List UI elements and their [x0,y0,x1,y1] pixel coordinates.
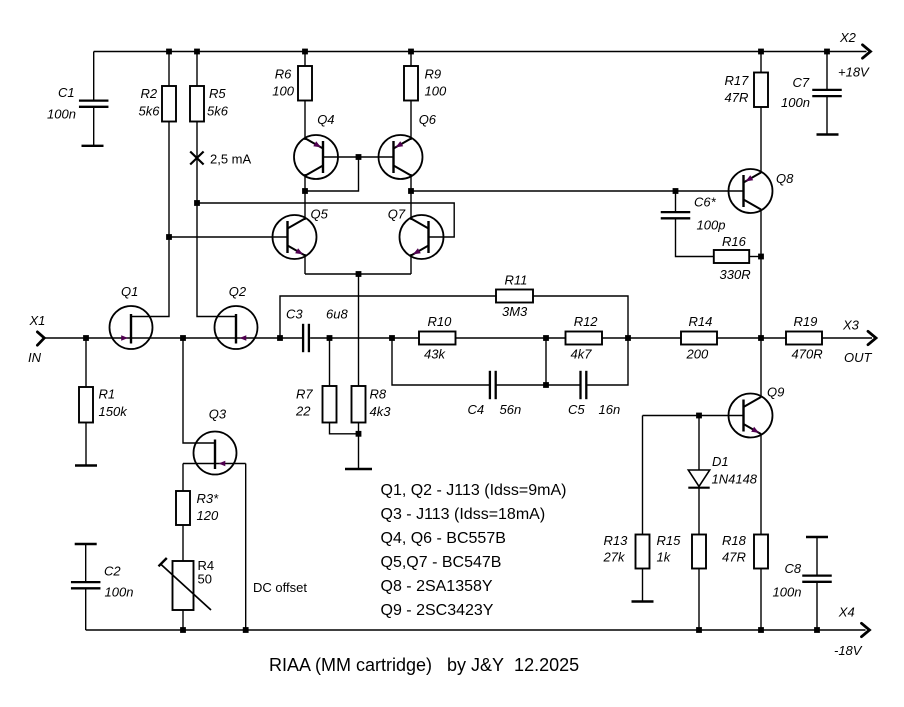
wire R19 to X3 [822,337,872,339]
wire C4 to C5 [497,384,580,386]
wire R5 bottom to Q2 drain [197,122,236,317]
svg-text:100n: 100n [47,107,76,122]
wire C6 bottom to R16 [676,218,714,256]
node rail R15 [696,627,702,633]
svg-text:Q3 - J113 (Idss=18mA): Q3 - J113 (Idss=18mA) [381,506,546,523]
svg-text:1N4148: 1N4148 [712,472,758,487]
svg-text:R14: R14 [689,314,713,329]
wire Q5 emitter down [304,254,306,274]
wire D1 cathode to R15 [698,488,700,535]
svg-text:R15: R15 [657,533,682,548]
terminator C2 top [75,543,97,545]
node mirror right [408,188,414,194]
svg-text:R16: R16 [722,234,747,249]
wire C4 branch left [392,338,489,385]
svg-text:27k: 27k [603,550,626,565]
svg-text:R8: R8 [370,386,387,401]
wire C4C5 riser [545,338,547,385]
wire C7 bottom lead [826,96,828,135]
wire C5 right riser [587,338,628,385]
wire R10 to R12 [456,337,566,339]
wire R7 bottom link [330,423,359,434]
svg-text:R11: R11 [505,273,528,288]
svg-text:16n: 16n [599,402,621,417]
wire R6 to Q4 emitter [304,101,306,141]
svg-text:Q4: Q4 [317,112,334,127]
wire C8 bottom lead [816,581,818,630]
node C6 tap [673,188,679,194]
svg-text:4k7: 4k7 [571,347,593,362]
wire C1 top lead [93,52,95,101]
wire Q3 source to R3 [182,464,184,492]
node rail R6 [302,49,308,55]
wire +18V top rail [94,51,867,53]
node R16 out [758,254,764,260]
node Q5 base tap [166,234,172,240]
diode D1 1N4148 [688,470,709,488]
svg-text:DC offset: DC offset [253,580,307,595]
node input R1 [83,335,89,341]
wire R2 bottom to Q1 drain [131,122,169,317]
svg-text:+18V: +18V [838,65,870,80]
resistor R6 100 [298,66,312,101]
resistor R10 43k [419,332,456,345]
svg-text:Q1: Q1 [121,284,138,299]
svg-text:50: 50 [198,571,212,586]
svg-text:56n: 56n [500,402,522,417]
svg-text:Q1, Q2 - J113 (Idss=9mA): Q1, Q2 - J113 (Idss=9mA) [381,482,567,499]
wire Q5 base from R2 line [169,236,288,238]
wire mirror bases tie [323,156,394,158]
svg-text:RIAA (MM cartridge) by J&Y: RIAA (MM cartridge) by J&Y 12.2025 [269,655,579,675]
svg-text:2,5 mA: 2,5 mA [210,152,252,167]
terminator R1 bottom [75,464,97,466]
wire R12 to R14 [602,337,681,339]
wire R13 bottom lead [642,569,644,602]
capacitor C3 6u8 [303,324,309,352]
svg-text:4k3: 4k3 [370,404,392,419]
wire Q9 collector to output node [760,338,762,397]
node rail R2 [166,49,172,55]
wire C1 bottom lead [93,107,95,146]
node rail R17 [758,49,764,55]
svg-text:R18: R18 [722,533,747,548]
capacitor C1 100n [79,101,109,107]
svg-text:100n: 100n [781,95,810,110]
svg-text:R9: R9 [425,67,442,82]
terminator C1 bottom [82,145,104,147]
resistor R17 47R [754,73,768,108]
svg-text:200: 200 [686,347,709,362]
svg-text:C1: C1 [58,85,75,100]
svg-text:47R: 47R [722,550,746,565]
svg-text:R17: R17 [725,73,750,88]
svg-text:330R: 330R [720,267,751,282]
svg-text:3M3: 3M3 [502,304,528,319]
svg-text:R13: R13 [604,533,629,548]
wire C6 top lead [675,191,677,213]
svg-text:X4: X4 [838,605,855,620]
svg-text:C8: C8 [785,561,802,576]
terminator C8 top [806,536,828,538]
transistor Q2 [215,306,258,349]
wire Q7 base from R5 line [197,203,454,237]
ground R7 R8 [345,468,372,470]
node output [758,335,764,341]
node rail C8 [814,627,820,633]
wire R4 bottom lead [182,610,184,630]
node R7 tap [327,335,333,341]
wire input main line [44,337,302,339]
wire Q9 emitter to R18 [760,434,762,535]
wire mirror bases drop [305,157,359,191]
wire R8 bottom to ground [358,423,360,470]
resistor R16 330R [714,250,749,263]
wire -18V bottom rail [86,629,866,631]
node rail R18 [758,627,764,633]
wire R15 bottom lead [698,569,700,631]
node diff sources [180,335,186,341]
terminator C7 bottom [817,133,839,135]
svg-text:100p: 100p [697,217,726,232]
resistor R15 1k [692,535,706,569]
wire Q9 base line [643,415,744,417]
wire Q3 source-gate line [183,463,246,465]
resistor R5 5k6 [190,86,204,122]
wire R11 bypass left [280,296,496,338]
svg-text:Q5: Q5 [311,206,329,221]
wire R5 top lead [196,52,198,87]
svg-text:100: 100 [272,84,294,99]
wire R9 top lead [410,52,412,67]
resistor R14 200 [681,332,717,345]
connector X4 arrow [862,623,870,636]
node emitters tail [356,271,362,277]
svg-text:150k: 150k [99,404,129,419]
svg-text:Q6: Q6 [419,112,437,127]
resistor R7 22 [323,386,337,423]
capacitor C2 100n [71,582,101,588]
wire mirror output to Q8 base [411,190,744,192]
transistor Q3 [194,432,237,475]
wire R6 top lead [304,52,306,67]
svg-text:Q2: Q2 [229,284,247,299]
svg-text:1k: 1k [657,550,672,565]
wire Q7 emitter down [410,254,412,274]
capacitor C8 100n [802,576,832,582]
svg-text:Q3: Q3 [209,407,227,422]
node R7 R8 gnd [356,431,362,437]
terminator R13 bottom [632,600,654,602]
svg-text:R10: R10 [428,314,453,329]
resistor R2 5k6 [162,86,176,122]
wire R2 top lead [168,52,170,87]
svg-text:22: 22 [295,404,311,419]
svg-text:R7: R7 [296,386,313,401]
transistor Q4 [294,135,338,179]
wire emitters join [305,273,411,275]
svg-text:X1: X1 [29,313,46,328]
svg-text:R6: R6 [275,67,292,82]
svg-text:R2: R2 [141,86,158,101]
svg-text:Q5,Q7 - BC547B: Q5,Q7 - BC547B [381,554,502,571]
svg-text:-18V: -18V [834,643,863,658]
svg-text:C3: C3 [286,306,303,321]
svg-text:OUT: OUT [844,350,873,365]
wire Q6 collector down [410,174,412,191]
svg-text:120: 120 [197,508,219,523]
capacitor C6* 100p [661,212,691,218]
svg-text:R12: R12 [574,314,599,329]
svg-text:R19: R19 [794,314,818,329]
transistor Q6 [379,135,423,179]
svg-text:C6*: C6* [694,195,717,210]
svg-text:Q8: Q8 [776,171,794,186]
capacitor C7 100n [812,90,842,96]
node D1 anode [696,413,702,419]
wire R3 to R4 [182,525,184,561]
wire tail to R8 [358,274,360,386]
svg-text:470R: 470R [792,347,823,362]
svg-text:6u8: 6u8 [326,306,348,321]
transistor Q8 [729,169,773,213]
node rail R5 [194,49,200,55]
svg-text:R5: R5 [209,86,226,101]
svg-text:100n: 100n [105,584,134,599]
svg-text:5k6: 5k6 [139,103,161,118]
wire Q8 collector to output node [760,210,762,339]
svg-text:C7: C7 [793,75,810,90]
node rail R9 [408,49,414,55]
svg-text:X3: X3 [842,318,860,333]
svg-text:47R: 47R [725,90,749,105]
resistor R8 4k3 [352,386,366,423]
svg-text:C4: C4 [468,402,485,417]
node rail C7 [824,49,830,55]
trimmer R4 50 [159,558,212,610]
wire R1 top lead [85,338,87,387]
wire R17 to Q8 emitter [760,107,762,173]
node R10 R12 [543,335,549,341]
capacitor C4 56n [490,371,496,399]
svg-text:R1: R1 [99,387,116,402]
transistor Q1 [110,306,153,349]
transistor Q5 [273,215,317,259]
svg-text:Q9: Q9 [767,385,784,400]
svg-text:Q9 - 2SC3423Y: Q9 - 2SC3423Y [381,602,494,619]
transistor Q9 [729,394,773,438]
node mirror bases [356,154,362,160]
svg-text:Q7: Q7 [388,206,406,221]
wire Q3 drain from diff pair [183,338,215,443]
resistor R19 470R [786,332,822,345]
node rail R4 [180,627,186,633]
transistor Q7 [400,215,444,259]
resistor R12 4k7 [566,332,603,345]
svg-text:D1: D1 [712,454,729,469]
svg-text:5k6: 5k6 [207,103,229,118]
wire C8 top lead [816,537,818,576]
resistor R11 3M3 [496,290,533,303]
resistor R1 150k [79,387,93,423]
svg-text:100n: 100n [773,585,802,600]
wire C3 to R10 [310,337,419,339]
current marker 2,5 mA [190,152,203,165]
node C3 left [277,335,283,341]
resistor R13 27k [636,535,650,569]
wire R1 bottom lead [85,423,87,466]
wire R16 to Q8 collector line [749,256,761,258]
wire D1 anode lead [698,416,700,471]
wire DC offset line [245,464,247,631]
connector X3 arrow [868,331,876,344]
wire C7 top lead [826,52,828,91]
connector X2 arrow [863,45,871,58]
wire R11 right to output node [533,296,628,338]
svg-text:43k: 43k [424,347,446,362]
connector X1 arrow [37,332,44,345]
svg-text:X2: X2 [839,30,857,45]
wire C2 bottom lead [85,588,87,630]
capacitor C5 16n [581,371,587,399]
wire Q4 collector to mirror node [304,174,306,191]
svg-text:C5: C5 [568,402,585,417]
svg-text:C2: C2 [104,564,121,579]
node R12 R14 [625,335,631,341]
node rail DC offset [243,627,249,633]
resistor R9 100 [404,66,418,101]
node C4 tap [389,335,395,341]
wire R13 top lead [642,416,644,535]
node Q7 base tap [194,200,200,206]
wire R18 bottom lead [760,569,762,631]
node C4 C5 [543,382,549,388]
wire mirror node to Q7 collector [410,191,412,220]
wire mirror node to Q5 collector [304,191,306,220]
resistor R3* 120 [176,491,190,525]
node mirror left [302,188,308,194]
svg-text:100: 100 [425,84,447,99]
wire R14 to R19 [717,337,786,339]
svg-text:Q8 - 2SA1358Y: Q8 - 2SA1358Y [381,578,493,595]
wire R9 to Q6 emitter [410,101,412,141]
svg-text:R3*: R3* [197,491,220,506]
svg-text:IN: IN [28,350,42,365]
wire C2 top lead [85,544,87,582]
svg-text:Q4, Q6 - BC557B: Q4, Q6 - BC557B [381,530,506,547]
resistor R18 47R [754,535,768,569]
wire R7 top lead [329,338,331,386]
wire R17 top lead [760,52,762,73]
